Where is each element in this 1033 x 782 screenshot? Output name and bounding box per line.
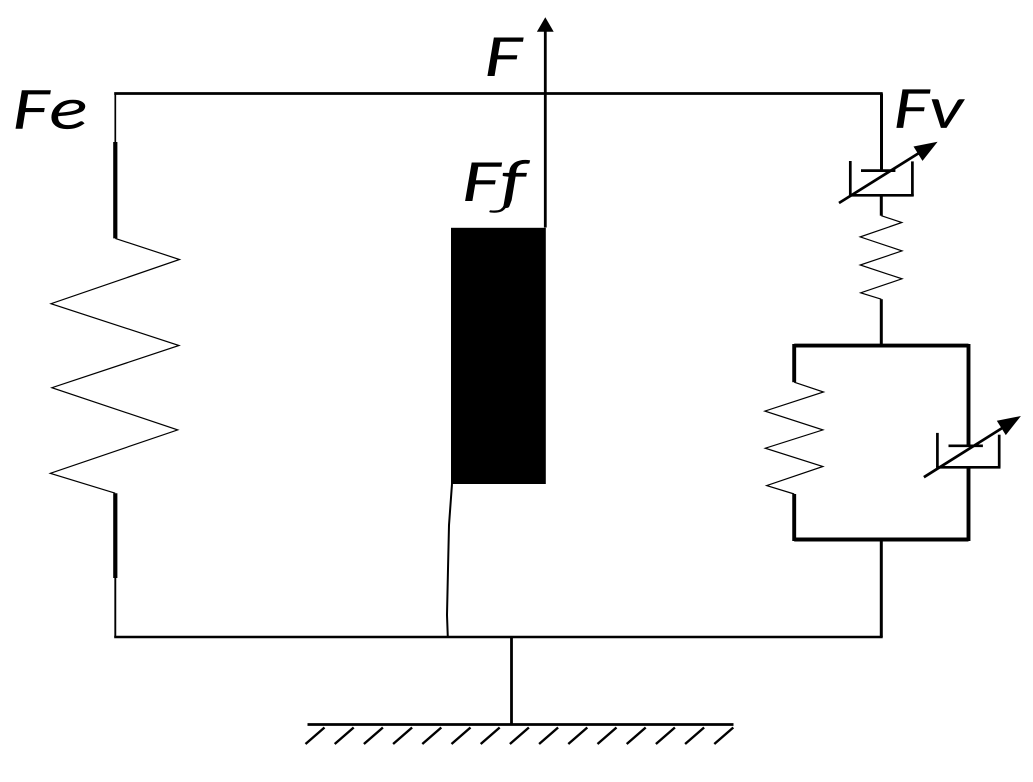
damper D2 (variable damper, in frame right)	[936, 433, 1000, 467]
label F	[487, 38, 523, 77]
ground hatching	[306, 728, 734, 745]
wire right vertical (top wire to damper D1)	[880, 94, 883, 171]
parallel frame left upper	[792, 344, 796, 382]
wire bottom horizontal	[114, 636, 883, 639]
parallel frame right upper (rod into damper D2)	[967, 344, 971, 446]
parallel frame bottom	[794, 538, 968, 542]
wire rod spring S2 to parallel frame	[880, 299, 883, 345]
spring S3 (inside frame, left)	[765, 382, 824, 494]
ground stem	[510, 637, 513, 725]
wire top horizontal	[114, 92, 883, 95]
spring S2 (right, series)	[860, 216, 902, 300]
spring Fe (left)	[50, 238, 179, 493]
wire left vertical upper thick	[113, 142, 117, 238]
force arrow F	[537, 17, 554, 227]
parallel frame right lower (rod out of damper D2)	[967, 467, 971, 541]
wire rod frame bottom to bottom wire	[880, 540, 883, 638]
label Fe	[16, 90, 86, 129]
ground line	[308, 723, 734, 726]
wire rod between damper D1 and spring S2	[880, 195, 883, 215]
wire left vertical lower thick	[113, 493, 117, 578]
parallel frame left lower	[792, 494, 796, 541]
wire slanted from friction block to bottom	[447, 484, 452, 637]
wire left vertical upper thin	[114, 94, 116, 143]
damper D2 variability arrow	[924, 416, 1021, 477]
damper D1 (variable damper, top right)	[849, 161, 914, 197]
parallel frame top	[794, 344, 968, 348]
friction block Ff (filled)	[451, 228, 546, 484]
label Ff	[465, 160, 530, 212]
label Fv	[896, 89, 965, 128]
wire left vertical lower thin	[114, 578, 116, 637]
damper D1 variability arrow	[839, 142, 938, 203]
